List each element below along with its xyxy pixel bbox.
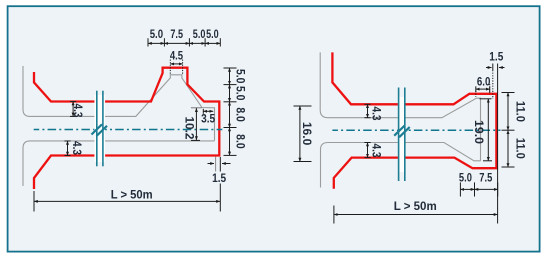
left road: gray original kerb line (bottom) [23,141,215,186]
svg-text:10.2: 10.2 [182,117,196,140]
svg-text:11.0: 11.0 [514,138,528,159]
svg-text:5.0: 5.0 [206,27,219,41]
svg-text:5.0: 5.0 [234,69,248,84]
svg-text:7.5: 7.5 [479,171,492,185]
right road: red edge outline [332,52,496,188]
svg-text:4.3: 4.3 [70,141,82,155]
dim L > 50m (left figure) [34,191,220,212]
svg-text:3.5: 3.5 [201,112,215,126]
svg-text:1.5: 1.5 [212,171,226,185]
dim 19.0 inner right [480,99,493,161]
dim chain top: ticks [148,38,220,46]
svg-text:L > 50m: L > 50m [111,187,153,201]
dim L > 50m (right figure) [334,206,498,224]
dim 3.5 [203,109,213,114]
svg-text:4.3: 4.3 [71,104,83,118]
dim chain top: lines with arrows [148,42,220,44]
break line (teal double vertical, right) [398,88,400,182]
dim 4.3 top (right fig) [364,104,370,117]
dim 10.2 [191,108,202,141]
break line (teal double vertical) [96,91,98,167]
left road: gray original kerb line (top) [23,66,215,141]
svg-text:4.3: 4.3 [369,107,381,121]
break zigzag mark on centerline (right) [394,126,410,138]
dim 11.0 + 11.0 far right [502,93,515,168]
dim chain right vertical (5.0 5.0 8.0 8.0) [224,68,237,155]
svg-text:L > 50m: L > 50m [394,199,437,213]
svg-text:16.0: 16.0 [300,122,314,146]
dim 1.5 right end [208,157,231,212]
svg-text:8.0: 8.0 [234,107,248,122]
dim 4.5 throat [170,60,182,75]
svg-text:4.3: 4.3 [369,144,381,158]
svg-text:11.0: 11.0 [514,101,528,122]
svg-text:5.0: 5.0 [234,86,248,101]
svg-text:8.0: 8.0 [234,134,248,149]
break band white mask [94,95,105,162]
svg-text:1.5: 1.5 [489,49,503,63]
right road: gray original kerb line (top) [320,52,480,160]
break zigzag mark on centerline [92,124,108,136]
right road: teal centerline (dash-dot) [332,129,500,131]
break band white mask (right) [398,97,406,172]
dim 5.0 7.5 bottom right [460,182,497,196]
dim 4.3 bottom-left [64,141,70,156]
svg-text:5.0: 5.0 [459,171,472,185]
right road: gray original kerb line (bottom) [321,143,481,188]
dim 6.0 top right [476,84,490,97]
dim 16.0 left [294,106,312,162]
dim 4.3 top-left [70,102,76,117]
svg-text:5.0: 5.0 [193,27,206,41]
svg-text:4.5: 4.5 [170,48,183,62]
svg-text:7.5: 7.5 [170,27,183,41]
left road: red edge outline [34,68,219,189]
dim 4.3 bottom (right fig) [364,143,370,158]
left road: teal centerline (dash-dot) [34,129,223,131]
svg-text:5.0: 5.0 [150,27,164,41]
svg-text:6.0: 6.0 [477,75,491,89]
svg-text:19.0: 19.0 [472,120,486,144]
dim 1.5 top right [486,64,505,224]
